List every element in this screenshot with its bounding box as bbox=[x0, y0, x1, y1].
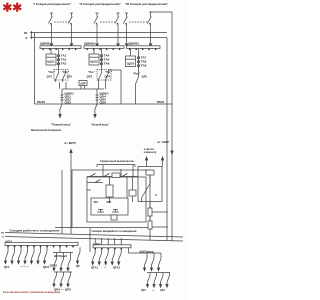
switch QP1e bbox=[146, 273, 150, 288]
contact KT2 bbox=[104, 174, 110, 177]
bus bar ЩАО bbox=[93, 242, 131, 248]
footnote asterisks bbox=[3, 3, 21, 12]
label twilight switch bbox=[97, 159, 135, 167]
em switch row wire bbox=[147, 272, 170, 274]
breaker section II left bbox=[94, 13, 99, 46]
svg-text:QF2: QF2 bbox=[67, 76, 73, 79]
wire verticals inside box bbox=[87, 165, 133, 198]
label working light section bbox=[10, 229, 60, 233]
feeder QF spare bbox=[76, 247, 81, 268]
svg-text:QF5: QF5 bbox=[142, 76, 148, 79]
label mechanical interlock bbox=[31, 128, 61, 132]
svg-text:QP1: QP1 bbox=[141, 289, 146, 292]
feeder QF12 bbox=[98, 250, 102, 265]
section III header bbox=[125, 2, 169, 6]
wire TA drop II bbox=[101, 49, 103, 71]
red caption bbox=[3, 290, 60, 294]
bottom N rail bbox=[5, 237, 183, 242]
control unit inner box bbox=[87, 177, 146, 222]
feeder QF2 bottom bbox=[11, 247, 15, 263]
breaker section II right bbox=[115, 13, 120, 46]
svg-text:АВР: АВР bbox=[80, 82, 86, 85]
feeder QF14 bbox=[111, 250, 115, 265]
breaker section I right bbox=[68, 13, 73, 46]
label QF9 bottom bbox=[43, 266, 50, 269]
label QP1-QP4 bbox=[141, 289, 165, 292]
label PE bottom bbox=[1, 232, 4, 234]
svg-text:Механическая блокировка: Механическая блокировка bbox=[31, 128, 61, 132]
svg-text:от АВР: от АВР bbox=[157, 140, 169, 144]
svg-text:"Рез.": "Рез." bbox=[88, 71, 95, 74]
breaker QF3 bbox=[87, 70, 102, 82]
pushbutton box SB bbox=[91, 198, 128, 215]
PEN line bbox=[35, 101, 173, 104]
feeder QF3 bottom bbox=[17, 247, 21, 263]
rail from ABP (right vertical B) bbox=[171, 12, 173, 241]
breaker QF5 bbox=[133, 73, 148, 105]
switch QP4e bbox=[166, 273, 170, 288]
svg-text:ЩО3: ЩО3 bbox=[127, 61, 135, 65]
svg-text:ТА9: ТА9 bbox=[141, 64, 147, 67]
sub bus UVO emergency bbox=[129, 248, 162, 254]
feeder QF6 bottom bbox=[37, 247, 41, 263]
feeder QF15 bbox=[118, 250, 122, 265]
svg-text:QP4: QP4 bbox=[160, 289, 165, 292]
svg-text:ЩВКВ2: ЩВКВ2 bbox=[84, 41, 96, 45]
feeder QF1 bottom bbox=[4, 247, 8, 263]
svg-text:QF11: QF11 bbox=[91, 267, 99, 270]
aux box in SB bbox=[111, 215, 117, 220]
svg-text:ТА6: ТА6 bbox=[104, 62, 110, 65]
switch QP2 bbox=[60, 272, 64, 287]
wire TA drop III bbox=[138, 49, 140, 78]
svg-text:"I Секция распределения": "I Секция распределения" bbox=[33, 2, 72, 6]
rail from VRU bbox=[70, 150, 72, 235]
feeder QF4 bottom bbox=[24, 247, 28, 263]
svg-text:Секция рабочего освещения: Секция рабочего освещения bbox=[10, 229, 60, 233]
tap PE-N bbox=[31, 31, 33, 39]
reserve box II (dashed) bbox=[97, 70, 111, 81]
CT TA5 bbox=[100, 58, 110, 61]
label dots bottom bbox=[20, 265, 29, 268]
switch QP2e bbox=[153, 273, 157, 288]
label emergency light section bbox=[92, 229, 137, 233]
label Rez II bbox=[88, 71, 95, 74]
bus bar III bbox=[127, 41, 161, 48]
contact K2 bbox=[122, 174, 128, 177]
svg-text:ЩВКВ3: ЩВКВ3 bbox=[128, 41, 140, 45]
switch QP1 bbox=[53, 272, 57, 287]
svg-text:ТА2: ТА2 bbox=[61, 58, 67, 61]
svg-text:Сумеречный выключатель: Сумеречный выключатель bbox=[100, 159, 134, 163]
svg-text:SB2: SB2 bbox=[107, 202, 112, 204]
switch QP3 bbox=[67, 272, 71, 287]
svg-text:SB1: SB1 bbox=[94, 202, 99, 204]
svg-text:QF10: QF10 bbox=[50, 265, 58, 268]
feeder QF11 bbox=[92, 250, 96, 265]
svg-text:ТА4: ТА4 bbox=[104, 54, 110, 57]
wire ABP bottom bbox=[60, 82, 106, 89]
mechanical link III (dashed) bbox=[129, 21, 148, 23]
input switch QS1-3 bbox=[59, 89, 64, 118]
bus bar II bbox=[84, 41, 124, 48]
contactor box K bbox=[138, 167, 162, 202]
pushbutton SB1 bbox=[94, 202, 105, 212]
svg-text:QF15: QF15 bbox=[113, 267, 121, 270]
label Rez II-2 bbox=[105, 71, 112, 74]
bus ЩАО riser ticks bbox=[95, 238, 121, 245]
breaker section I left bbox=[48, 13, 53, 46]
cabinet ЩО2 bbox=[89, 49, 99, 66]
CT TA1 bbox=[57, 54, 67, 57]
breaker QF2 bbox=[63, 70, 73, 82]
svg-text:ЩВКВ1: ЩВКВ1 bbox=[40, 41, 52, 45]
relay block KT bbox=[112, 173, 120, 178]
CT TA2 bbox=[57, 58, 67, 61]
svg-text:"Первый ввод": "Первый ввод" bbox=[51, 123, 72, 127]
feeder QF13 bbox=[105, 250, 109, 265]
svg-text:от ВРУ: от ВРУ bbox=[64, 141, 76, 145]
CT TA8 bbox=[137, 60, 147, 63]
sub bus UVO working bbox=[53, 247, 73, 258]
label QS4-6 bbox=[100, 93, 109, 105]
contact row wire bbox=[87, 176, 138, 178]
fuse F1 on K output bbox=[148, 202, 152, 241]
em feeder 3 bbox=[157, 253, 161, 271]
lamp feeder L2 bbox=[60, 253, 64, 271]
label from VRU bbox=[64, 141, 76, 145]
bus bar III ticks bbox=[129, 49, 156, 51]
section divider bbox=[89, 228, 91, 252]
svg-text:"II Секция распределения": "II Секция распределения" bbox=[79, 2, 122, 6]
bus bar I ticks bbox=[43, 49, 77, 51]
aux relay box bbox=[129, 177, 136, 203]
label N bottom bbox=[2, 236, 4, 238]
feeder QF5 bottom bbox=[30, 247, 34, 263]
svg-text:— — —: — — — bbox=[20, 265, 29, 268]
label QF10 bbox=[50, 265, 58, 268]
svg-text:"Рез.": "Рез." bbox=[133, 73, 140, 76]
svg-text:ЩО1: ЩО1 bbox=[47, 60, 55, 64]
ABP box bbox=[79, 81, 87, 86]
wire rail x62 bbox=[55, 170, 72, 234]
bus ЩАО ticks bbox=[95, 248, 123, 250]
CT TA3 bbox=[57, 62, 67, 65]
label dots2 bbox=[104, 266, 107, 269]
wire row 2 bbox=[87, 180, 103, 183]
svg-text:элементу: элементу bbox=[144, 151, 158, 154]
svg-text:ЩУОавар: ЩУОавар bbox=[140, 250, 155, 253]
label second input bbox=[91, 123, 110, 127]
svg-text:"Второй ввод": "Второй ввод" bbox=[91, 123, 110, 127]
PE bus bbox=[24, 32, 167, 35]
control unit outer box bbox=[72, 170, 150, 228]
label Rez I-2 bbox=[62, 71, 69, 74]
svg-text:QF1: QF1 bbox=[47, 76, 53, 79]
svg-text:ЩО2: ЩО2 bbox=[90, 60, 98, 64]
photocell wire 1 bbox=[145, 157, 147, 167]
section II header bbox=[79, 2, 122, 6]
svg-text:PE: PE bbox=[24, 32, 28, 35]
rail N drop (right vertical A) bbox=[166, 38, 168, 241]
em feeder 2 bbox=[150, 253, 154, 271]
wire QP row left bbox=[54, 271, 72, 273]
label QF11 bbox=[91, 267, 99, 270]
svg-text:Блок автоматического управлени: Блок автоматического управления освещени… bbox=[3, 290, 60, 294]
svg-text:ЩУОраб: ЩУОраб bbox=[54, 255, 68, 258]
svg-text:PEN: PEN bbox=[157, 101, 164, 104]
CT TA4 bbox=[100, 54, 110, 57]
em feeder 1 bbox=[143, 253, 147, 271]
label from ABP bbox=[157, 140, 169, 144]
input switch QS4-6 bbox=[94, 89, 99, 118]
CT TA7 bbox=[137, 56, 147, 59]
svg-text:ТА8: ТА8 bbox=[141, 60, 147, 63]
svg-text:Секция аварийного освещения: Секция аварийного освещения bbox=[92, 229, 137, 233]
label QP1-QP3 bbox=[54, 289, 72, 292]
bus bar ЩРО bbox=[5, 241, 78, 246]
svg-text:ТА5: ТА5 bbox=[104, 58, 110, 61]
arrow on ABP rail bbox=[171, 151, 173, 154]
tap to PEN rail left bbox=[34, 33, 36, 105]
lamp feeder L3 bbox=[67, 253, 71, 271]
label to photocell bbox=[144, 148, 158, 154]
cabinet ЩО1 bbox=[46, 49, 56, 66]
contact KT1 bbox=[90, 174, 96, 177]
CT TA6 bbox=[100, 62, 110, 65]
bus bar I bbox=[40, 41, 81, 48]
label QS1-3 bbox=[65, 93, 74, 105]
svg-text:N: N bbox=[26, 37, 28, 40]
label Rez I bbox=[48, 71, 55, 74]
mechanical link I (dashed) bbox=[54, 21, 69, 23]
breaker QF1 bbox=[47, 70, 59, 82]
bus ЩРО ticks bbox=[7, 246, 74, 248]
svg-text:ТА3: ТА3 bbox=[61, 62, 67, 65]
CT TA9 bbox=[137, 64, 147, 67]
N bus bbox=[26, 37, 168, 40]
bus bar II ticks bbox=[87, 49, 121, 51]
pushbutton SB2 bbox=[107, 202, 120, 212]
breaker section III right bbox=[147, 12, 152, 46]
svg-text:ТА1: ТА1 bbox=[61, 54, 67, 57]
svg-text:QF1: QF1 bbox=[4, 266, 10, 269]
svg-text:QF3: QF3 bbox=[87, 76, 93, 79]
label QF15 bbox=[113, 267, 121, 270]
mechanical link II (dashed) bbox=[100, 21, 115, 23]
switch QP3e bbox=[159, 273, 163, 288]
photocell wire 2 bbox=[161, 157, 163, 167]
svg-text:РЕ30: РЕ30 bbox=[37, 101, 46, 104]
feeder QF7 bottom bbox=[43, 247, 47, 263]
relay coil KL bbox=[106, 177, 113, 203]
reserve box I (dashed) bbox=[54, 70, 68, 81]
svg-text:"III Секция распределения": "III Секция распределения" bbox=[125, 2, 169, 6]
breaker QF4 bbox=[105, 70, 111, 82]
wire K to rail A bbox=[152, 211, 168, 227]
breaker section III left bbox=[123, 13, 128, 46]
bottom PE rail bbox=[5, 233, 183, 238]
wire feed to ABP rail bbox=[151, 11, 173, 13]
wire TA drop I bbox=[58, 49, 60, 71]
wire QF4 to PEN bbox=[109, 70, 122, 104]
svg-text:QF4: QF4 bbox=[105, 76, 111, 79]
section I header bbox=[33, 2, 72, 6]
label QF1 bottom bbox=[4, 266, 10, 269]
cabinet ЩО3 bbox=[126, 49, 136, 67]
lamp feeder L1 bbox=[53, 253, 57, 271]
label first input bbox=[51, 123, 72, 127]
svg-text:ТА7: ТА7 bbox=[141, 56, 147, 59]
